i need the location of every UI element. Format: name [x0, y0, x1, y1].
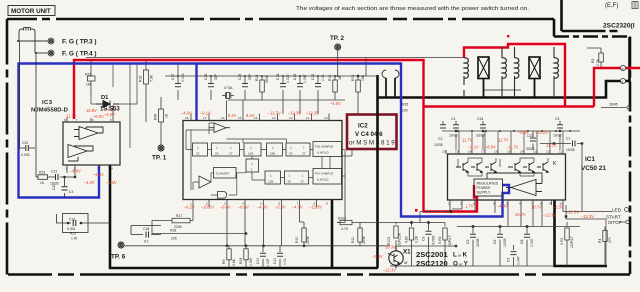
svg-text:1/2P4.7: 1/2P4.7 — [570, 236, 574, 248]
svg-text:C11: C11 — [273, 258, 277, 264]
svg-text:27: 27 — [301, 180, 305, 184]
svg-text:R18: R18 — [170, 229, 176, 233]
svg-text:R4: R4 — [598, 239, 602, 243]
svg-text:–8.9V: –8.9V — [485, 145, 496, 150]
op-amp triangle row2 — [199, 176, 211, 188]
svg-text:9: 9 — [326, 202, 328, 206]
capacitor C12 — [315, 76, 321, 114]
svg-text:6: 6 — [519, 202, 521, 206]
misc connection wires bottom — [396, 205, 563, 247]
svg-text:C22: C22 — [22, 141, 28, 145]
capacitor C34 — [480, 121, 486, 132]
svg-text:15K: 15K — [361, 74, 365, 81]
svg-text:START: START — [606, 215, 621, 220]
svg-text:C34: C34 — [477, 117, 483, 121]
svg-text:TP. 2: TP. 2 — [330, 35, 345, 42]
test point TP.6 — [118, 242, 124, 248]
svg-text:The voltages of each section a: The voltages of each section are those m… — [296, 6, 529, 12]
resistor R13 — [356, 75, 361, 114]
svg-text:–6.5V: –6.5V — [93, 114, 104, 119]
svg-text:15: 15 — [238, 116, 242, 120]
svg-text:–10.5V: –10.5V — [201, 205, 214, 210]
node F.G TP4 — [35, 50, 54, 56]
schmitt box — [214, 168, 237, 179]
svg-text:11: 11 — [306, 116, 309, 120]
resistor R16 — [144, 60, 149, 122]
op-amp U-IC3 box — [63, 122, 120, 165]
svg-text:R12: R12 — [328, 75, 332, 81]
resistor XR1 — [565, 222, 569, 266]
svg-text:TP. 6: TP. 6 — [111, 254, 126, 261]
svg-text:1: 1 — [289, 174, 291, 178]
capacitor C14 — [280, 76, 286, 114]
svg-text:20: 20 — [288, 180, 292, 184]
svg-text:0.022: 0.022 — [286, 74, 290, 83]
svg-text:C16: C16 — [204, 74, 208, 80]
svg-text:22/35: 22/35 — [476, 238, 480, 247]
wire black thick buses — [110, 37, 630, 268]
svg-text:1: 1 — [272, 146, 274, 150]
svg-text:C6: C6 — [493, 240, 497, 244]
svg-text:15: 15 — [507, 150, 511, 154]
svg-text:1: 1 — [230, 146, 232, 150]
svg-text:& HOLD: & HOLD — [317, 178, 329, 182]
svg-text:1: 1 — [303, 146, 305, 150]
svg-text:1 W: 1 W — [71, 237, 78, 241]
wire rail y266 bottom right — [390, 212, 553, 268]
svg-text:16: 16 — [494, 150, 498, 154]
connector 33/45 — [601, 106, 630, 109]
svg-text:11.7V: 11.7V — [508, 145, 519, 150]
svg-text:–2.3V: –2.3V — [106, 180, 117, 185]
divider 1/20 1/27 c — [285, 171, 309, 184]
svg-text:33P: 33P — [214, 73, 218, 80]
svg-text:MOTOR UNIT: MOTOR UNIT — [11, 8, 51, 15]
svg-text:9: 9 — [549, 202, 551, 206]
resistor R36 — [159, 97, 164, 145]
resistor R10 — [300, 208, 307, 247]
svg-text:C18: C18 — [143, 227, 149, 231]
capacitor C6 — [497, 227, 503, 267]
svg-text:1: 1 — [448, 202, 450, 206]
F/D sample hold box — [313, 142, 342, 157]
wire: box around R21 area — [86, 60, 137, 148]
wire blue main bus — [19, 64, 510, 217]
resistor R24 — [244, 246, 248, 268]
svg-text:–4.0V: –4.0V — [257, 205, 268, 210]
svg-text:10.7V: 10.7V — [515, 212, 526, 217]
svg-text:4: 4 — [111, 167, 113, 171]
svg-text:–12.3V: –12.3V — [288, 111, 301, 116]
svg-text:IC1: IC1 — [585, 156, 595, 163]
svg-text:13: 13 — [272, 116, 276, 120]
svg-text:C1: C1 — [566, 137, 570, 141]
terminal A — [620, 65, 625, 70]
svg-text:C5: C5 — [466, 240, 470, 244]
divider 1/2 — [246, 159, 259, 172]
svg-text:–12.3V: –12.3V — [543, 213, 556, 218]
resistor R14 — [260, 76, 265, 100]
svg-text:3.6K: 3.6K — [232, 258, 236, 266]
svg-text:–8.6V: –8.6V — [238, 205, 249, 210]
internal wires middle IC — [186, 123, 342, 195]
svg-text:R22: R22 — [70, 232, 76, 236]
bottom pins middle IC — [193, 200, 317, 208]
svg-text:–11.7V: –11.7V — [268, 111, 281, 116]
svg-text:R24: R24 — [239, 258, 243, 264]
resistor R3 — [587, 48, 603, 68]
svg-text:1M: 1M — [86, 83, 91, 87]
svg-text:R9: R9 — [222, 260, 226, 264]
transformer secondary drop wires — [382, 70, 399, 98]
node F.G TP3 — [17, 38, 54, 44]
svg-text:1: 1 — [251, 162, 253, 166]
resistor R18 — [152, 233, 247, 235]
test point TP.1 — [158, 145, 164, 151]
svg-text:10/35: 10/35 — [503, 238, 507, 247]
svg-text:2SC2320(I: 2SC2320(I — [603, 23, 635, 30]
svg-text:–9.9V → –10.0V: –9.9V → –10.0V — [518, 130, 548, 135]
svg-text:11.7V: 11.7V — [498, 138, 509, 143]
svg-text:13: 13 — [533, 150, 537, 154]
svg-text:–4.0V: –4.0V — [497, 204, 508, 209]
capacitor C19 / resistor R22 box — [56, 214, 110, 233]
regulated power supply box — [474, 179, 503, 196]
junction dot red bus — [450, 210, 453, 213]
svg-text:VC50 21: VC50 21 — [581, 165, 606, 172]
rail y222 right — [396, 221, 445, 223]
capacitor C5 — [470, 227, 476, 267]
svg-text:R14: R14 — [255, 75, 259, 81]
svg-text:F. G ( TP.4 ): F. G ( TP.4 ) — [62, 51, 97, 58]
svg-text:–9.6V: –9.6V — [220, 205, 231, 210]
wires from middle IC pins down — [209, 208, 300, 247]
svg-text:–9.1V: –9.1V — [200, 111, 211, 116]
resistor R9 — [227, 246, 231, 268]
svg-text:14: 14 — [254, 116, 258, 120]
IC1 box — [448, 154, 566, 200]
capacitor C9 — [426, 223, 432, 267]
capacitor C13 — [297, 76, 303, 114]
svg-text:C7: C7 — [507, 258, 511, 262]
capacitor C15 — [242, 76, 248, 100]
svg-text:SCHMIDT: SCHMIDT — [216, 172, 230, 176]
resistor R23 + capacitor C21 — [36, 174, 76, 180]
svg-text:1: 1 — [250, 146, 252, 150]
svg-text:C8: C8 — [520, 240, 524, 244]
svg-text:270: 270 — [608, 237, 612, 243]
svg-text:X’TAL: X’TAL — [224, 86, 233, 90]
svg-text:4.7/25: 4.7/25 — [432, 235, 436, 245]
svg-text:18: 18 — [185, 116, 189, 120]
svg-text:1: 1 — [216, 146, 218, 150]
svg-text:128: 128 — [268, 180, 273, 184]
svg-text:d: d — [621, 80, 623, 84]
svg-text:or: or — [404, 260, 408, 265]
svg-text:/STOP: /STOP — [608, 220, 622, 225]
IC3 top pin wires — [67, 105, 113, 122]
svg-text:O or Y: O or Y — [453, 261, 469, 268]
svg-text:32: 32 — [196, 152, 200, 156]
svg-text:–3.6V: –3.6V — [275, 205, 286, 210]
svg-text:12: 12 — [546, 150, 550, 154]
svg-text:C21: C21 — [51, 170, 57, 174]
svg-text:0.01: 0.01 — [321, 74, 325, 81]
resistor R21 — [88, 60, 96, 95]
svg-text:X R1: X R1 — [560, 237, 564, 245]
svg-text:1.7V: 1.7V — [465, 204, 474, 209]
svg-text:1K: 1K — [40, 181, 45, 185]
svg-text:22K: 22K — [171, 237, 178, 241]
gate symbol — [218, 192, 227, 199]
svg-text:390K: 390K — [265, 74, 269, 83]
capacitor C20 — [62, 177, 68, 198]
rail y246 — [121, 235, 390, 247]
svg-text:27: 27 — [302, 152, 306, 156]
svg-text:–9.1V: –9.1V — [468, 145, 479, 150]
svg-text:D1: D1 — [101, 95, 109, 101]
svg-text:17: 17 — [481, 150, 485, 154]
IC2 VC4046 maroon box — [347, 115, 397, 150]
top-right notch line — [562, 0, 622, 31]
svg-text:C4: C4 — [451, 117, 455, 121]
svg-text:2SC2120: 2SC2120 — [416, 259, 448, 268]
transistor collector wires IC1 — [458, 158, 548, 176]
resistor R8 — [409, 223, 413, 267]
top pins middle IC — [191, 101, 329, 121]
svg-text:C3: C3 — [555, 117, 559, 121]
svg-text:10: 10 — [324, 116, 328, 120]
op-amp IC3a — [74, 127, 103, 140]
svg-text:27: 27 — [229, 152, 233, 156]
transistor Q row IC1 — [456, 162, 548, 173]
svg-text:10.3V: 10.3V — [385, 245, 396, 250]
divider 1/128 — [244, 143, 261, 156]
LED line — [563, 208, 629, 212]
capacitor C2 — [440, 121, 446, 131]
svg-text:–12.3V: –12.3V — [306, 111, 319, 116]
svg-text:0.01: 0.01 — [283, 258, 287, 265]
svg-text:C2: C2 — [438, 137, 442, 141]
capacitor C8 — [524, 227, 530, 267]
svg-text:8.2V: 8.2V — [246, 113, 255, 118]
svg-text:C14: C14 — [276, 74, 280, 80]
svg-text:C20: C20 — [52, 184, 56, 190]
inverter triangle top — [209, 123, 230, 133]
svg-text:–4.0V: –4.0V — [292, 205, 303, 210]
resistor R4 — [603, 227, 607, 267]
svg-text:–4.0V: –4.0V — [104, 112, 115, 117]
svg-text:10/35: 10/35 — [566, 148, 575, 152]
svg-text:POWER: POWER — [477, 186, 491, 190]
IC3 bottom pin wires — [67, 165, 99, 177]
svg-text:L or K: L or K — [453, 252, 468, 259]
svg-text:2.2K: 2.2K — [415, 235, 419, 243]
resistor R103 — [394, 223, 398, 247]
svg-text:F. G ( TP.3 ): F. G ( TP.3 ) — [62, 39, 97, 46]
svg-text:1K: 1K — [338, 75, 342, 80]
svg-text:8: 8 — [64, 118, 66, 122]
MOTOR UNIT label — [8, 6, 55, 16]
svg-text:F/V SAMPLE: F/V SAMPLE — [315, 172, 333, 176]
svg-text:–12.3V: –12.3V — [383, 268, 396, 273]
svg-text:(E,F): (E,F) — [605, 3, 618, 9]
svg-text:10/35: 10/35 — [434, 143, 443, 147]
svg-text:IC2: IC2 — [358, 123, 368, 130]
svg-text:5: 5 — [110, 118, 112, 122]
svg-text:1.5W: 1.5W — [249, 257, 253, 266]
capacitor C7 — [511, 245, 517, 266]
svg-text:2SC2001: 2SC2001 — [416, 250, 448, 259]
svg-text:128: 128 — [248, 152, 253, 156]
component rail top middle — [165, 76, 378, 100]
capacitor C3 — [557, 121, 563, 132]
svg-text:X R2: X R2 — [438, 236, 442, 244]
transformer core 2 — [529, 57, 540, 98]
svg-text:–4.0V: –4.0V — [84, 180, 95, 185]
svg-text:4: 4 — [493, 202, 495, 206]
svg-text:100: 100 — [402, 109, 408, 113]
svg-text:–12.3V: –12.3V — [309, 205, 322, 210]
svg-text:1: 1 — [302, 174, 304, 178]
svg-text:0.047: 0.047 — [266, 258, 270, 267]
svg-text:SUPPLY: SUPPLY — [477, 191, 492, 195]
resistor R11 — [358, 223, 362, 247]
top pins IC1 — [446, 135, 563, 154]
svg-text:R21: R21 — [85, 73, 91, 77]
resistor XR2 — [443, 223, 447, 267]
svg-text:20: 20 — [215, 152, 219, 156]
svg-text:2.7K: 2.7K — [596, 58, 600, 66]
svg-text:14: 14 — [520, 150, 524, 154]
svg-text:F/D SAMPLE: F/D SAMPLE — [315, 145, 333, 149]
wire net middle-right — [337, 149, 396, 223]
svg-text:7.5K: 7.5K — [150, 74, 154, 82]
svg-text:V C4 04 6: V C4 04 6 — [355, 131, 383, 138]
svg-text:or M S M 5 8 1 9: or M S M 5 8 1 9 — [349, 140, 395, 147]
svg-text:0.033: 0.033 — [21, 153, 30, 157]
svg-text:–4.0V: –4.0V — [181, 111, 192, 116]
svg-text:12: 12 — [289, 116, 293, 120]
svg-text:4.85: 4.85 — [405, 236, 409, 243]
svg-text:0.033: 0.033 — [181, 73, 185, 82]
svg-text:IC3: IC3 — [42, 100, 53, 106]
cap rail above IC1 — [443, 130, 580, 132]
wire red main bus — [74, 44, 640, 212]
svg-text:R11: R11 — [351, 237, 355, 243]
IC U2 middle box — [183, 121, 342, 200]
svg-text:C12: C12 — [311, 74, 315, 80]
svg-text:–4.0V: –4.0V — [93, 172, 104, 177]
svg-text:C10: C10 — [256, 258, 260, 264]
svg-text:C13: C13 — [293, 74, 297, 80]
svg-text:·: · — [297, 149, 298, 153]
op-amp A1 IC1 — [487, 173, 542, 196]
svg-text:C9: C9 — [422, 237, 426, 241]
svg-text:C19: C19 — [69, 218, 75, 222]
op-amp IC3b — [68, 145, 93, 162]
svg-text:R23: R23 — [39, 171, 45, 175]
svg-text:11.7V: 11.7V — [546, 143, 557, 148]
svg-text:0.001: 0.001 — [67, 227, 76, 231]
resistor R102 — [337, 220, 360, 224]
svg-text:11: 11 — [559, 150, 562, 154]
svg-text:R3: R3 — [591, 59, 595, 63]
divider 1/32 — [193, 143, 208, 156]
svg-text:REGULATED: REGULATED — [477, 182, 499, 186]
svg-text:3.3: 3.3 — [69, 190, 74, 194]
divider 1/128 b — [265, 171, 281, 184]
svg-text:–12.3V: –12.3V — [566, 210, 579, 215]
capacitor C4 — [453, 121, 459, 132]
capacitor C1 — [540, 141, 583, 212]
START/STOP line — [565, 205, 629, 266]
svg-text:33/45: 33/45 — [609, 103, 618, 107]
divider 1/20 1/27 b — [286, 143, 310, 156]
rail right bottom — [457, 225, 580, 227]
svg-text:0.1: 0.1 — [144, 240, 149, 244]
wire R21 box top rail — [86, 58, 464, 77]
svg-text:1/2P4.7: 1/2P4.7 — [448, 235, 452, 247]
svg-text:3: 3 — [97, 167, 99, 171]
pin stub wires above IC1 — [459, 131, 563, 150]
capacitor C17 — [175, 64, 181, 100]
svg-text:·: · — [224, 149, 225, 153]
svg-text:R15: R15 — [402, 103, 408, 107]
capacitor C16 — [208, 76, 214, 100]
svg-text:& HOLD: & HOLD — [317, 151, 329, 155]
svg-text:–2.3V: –2.3V — [372, 254, 383, 259]
transformer T1 coils — [464, 47, 558, 98]
svg-text:0.047: 0.047 — [530, 238, 534, 247]
svg-text:18: 18 — [468, 150, 472, 154]
terminal D — [620, 78, 625, 83]
svg-text:1: 1 — [66, 167, 68, 171]
svg-text:–2.3V: –2.3V — [553, 205, 564, 210]
divider 1/20 1/27 — [212, 143, 240, 156]
svg-text:LED: LED — [612, 208, 622, 213]
svg-text:20: 20 — [442, 150, 446, 154]
svg-text:20: 20 — [289, 152, 293, 156]
F/V sample hold box — [313, 169, 342, 185]
svg-text:R10: R10 — [295, 237, 299, 243]
svg-text:R16: R16 — [139, 76, 143, 82]
svg-text:–4.0V: –4.0V — [330, 101, 341, 106]
svg-text:R36: R36 — [154, 114, 158, 120]
svg-text:7: 7 — [76, 118, 78, 122]
resistor R17 — [152, 208, 193, 234]
svg-text:C17: C17 — [171, 74, 175, 80]
svg-text:R13: R13 — [351, 75, 355, 81]
svg-text:8.4V: 8.4V — [228, 113, 237, 118]
svg-text:4.7K: 4.7K — [341, 227, 349, 231]
svg-text:256: 256 — [270, 152, 275, 156]
capacitor C22 — [20, 41, 37, 177]
svg-text:C15: C15 — [238, 74, 242, 80]
svg-text:TP. 1: TP. 1 — [152, 155, 167, 162]
F.G. generator coil — [19, 27, 35, 53]
svg-text:1/2P2.2K: 1/2P2.2K — [398, 232, 402, 247]
transistor X1 — [388, 246, 403, 268]
svg-text:2: 2 — [251, 168, 253, 172]
resistor R12 — [333, 76, 338, 100]
svg-text:11.7V: 11.7V — [462, 138, 473, 143]
svg-text:–12.3V: –12.3V — [581, 214, 594, 219]
capacitor C10 — [260, 246, 266, 268]
svg-text:33P: 33P — [248, 73, 252, 80]
svg-text:11.7V: 11.7V — [66, 114, 77, 119]
svg-text:a: a — [622, 67, 624, 71]
